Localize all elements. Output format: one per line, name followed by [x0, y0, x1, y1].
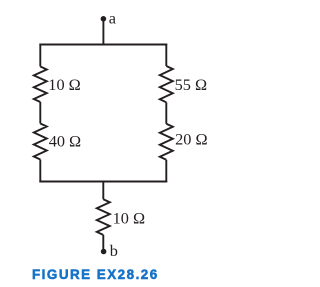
svg-text:b: b — [110, 241, 118, 260]
node b — [101, 249, 107, 255]
svg-text:10 Ω: 10 Ω — [113, 209, 145, 228]
wire top rail — [39, 44, 167, 46]
svg-text:40 Ω: 40 Ω — [49, 132, 81, 151]
resistor 20 ohm right bottom — [160, 124, 173, 160]
wire left branch lower — [39, 160, 41, 183]
wire to node b — [102, 235, 104, 252]
wire bottom rail — [39, 181, 167, 183]
svg-text:10 Ω: 10 Ω — [48, 75, 80, 94]
wire right branch lower — [165, 160, 167, 183]
wire right branch middle — [165, 102, 167, 124]
resistor 55 ohm right top — [160, 66, 173, 102]
resistor 40 ohm left bottom — [34, 124, 47, 160]
wire middle stem — [102, 181, 104, 200]
svg-text:a: a — [109, 9, 116, 28]
resistor 10 ohm left top — [34, 67, 47, 103]
svg-text:55 Ω: 55 Ω — [175, 75, 207, 94]
wire node a stem — [102, 19, 104, 45]
svg-text:20 Ω: 20 Ω — [175, 129, 207, 148]
wire left branch upper — [39, 44, 41, 67]
node a — [101, 16, 107, 22]
wire right branch upper — [165, 44, 167, 66]
svg-text:FIGURE EX28.26: FIGURE EX28.26 — [32, 267, 159, 282]
resistor 10 ohm middle — [97, 199, 110, 235]
wire left branch middle — [39, 102, 41, 124]
